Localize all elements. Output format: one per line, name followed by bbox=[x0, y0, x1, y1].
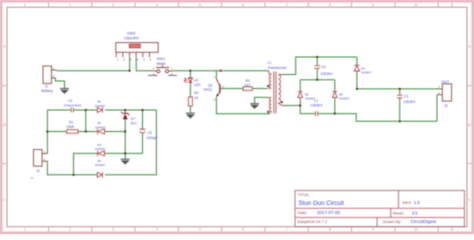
junction left rail / R1 row bbox=[46, 130, 48, 132]
svg-text:C2: C2 bbox=[321, 65, 325, 69]
wire secondary bottom node bbox=[284, 105, 300, 107]
svg-text:C1: C1 bbox=[314, 99, 318, 103]
wire SW1 to transformer primary top bbox=[173, 70, 269, 72]
svg-text:C: C bbox=[3, 198, 6, 202]
wire base to R3 bbox=[224, 88, 268, 90]
wire emitter to feedback winding bottom bbox=[216, 97, 270, 113]
svg-text:J2: J2 bbox=[444, 104, 448, 108]
svg-text:U2: U2 bbox=[194, 79, 198, 83]
wire C2 column bbox=[316, 57, 318, 80]
junction LED column / main rail bbox=[189, 70, 191, 72]
svg-text:in: in bbox=[31, 176, 34, 180]
svg-text:7: 7 bbox=[286, 3, 288, 7]
diode D5 (top multiplier) bbox=[354, 57, 372, 75]
wire battery negative to ground bbox=[56, 78, 65, 88]
connector J3 bbox=[31, 150, 47, 181]
wire C3 column bbox=[399, 89, 401, 121]
resistor R2 1K bbox=[188, 91, 199, 106]
svg-text:J3: J3 bbox=[36, 169, 40, 173]
svg-text:TITLE:: TITLE: bbox=[298, 192, 310, 197]
ground (transformer feedback) bbox=[250, 104, 259, 109]
svg-text:Sheet:: Sheet: bbox=[393, 210, 405, 215]
diode D8 (middle multiplier) bbox=[332, 92, 349, 101]
LED U2 bbox=[184, 78, 201, 87]
wire C1 row bbox=[300, 106, 437, 122]
svg-text:6: 6 bbox=[242, 228, 244, 232]
frame tick marks left and right bbox=[2, 86, 471, 164]
svg-text:4: 4 bbox=[156, 228, 158, 232]
capacitor C5 1000uF bbox=[140, 129, 158, 140]
svg-text:9: 9 bbox=[372, 3, 374, 7]
frame tick marks top bbox=[49, 2, 439, 7]
resistor R3 bbox=[243, 79, 252, 90]
svg-text:10: 10 bbox=[414, 3, 418, 7]
svg-text:1: 1 bbox=[24, 228, 26, 232]
svg-text:8: 8 bbox=[329, 3, 331, 7]
junction D3 branch / bottom row bbox=[72, 174, 74, 176]
svg-text:OUT: OUT bbox=[441, 80, 450, 84]
svg-text:REV:: REV: bbox=[403, 200, 412, 205]
svg-text:5: 5 bbox=[199, 228, 201, 232]
svg-text:11: 11 bbox=[450, 3, 454, 7]
junction C2 / multiplier middle rail bbox=[316, 79, 318, 81]
core bbox=[273, 72, 275, 114]
junction D5 / output rail bbox=[356, 88, 358, 90]
wire bridge left rail bbox=[46, 110, 48, 154]
svg-text:6MM: 6MM bbox=[157, 61, 166, 66]
svg-text:3: 3 bbox=[112, 228, 114, 232]
svg-text:R1: R1 bbox=[69, 120, 73, 124]
svg-text:1N4007: 1N4007 bbox=[95, 104, 106, 108]
svg-text:D7: D7 bbox=[131, 117, 135, 121]
svg-text:R3: R3 bbox=[245, 79, 249, 83]
svg-text:TIP31: TIP31 bbox=[203, 88, 212, 92]
svg-text:Stun Gun Circuit: Stun Gun Circuit bbox=[298, 200, 344, 207]
junction zener bottom / D2 row bbox=[124, 130, 126, 132]
connector J1 battery bbox=[41, 66, 57, 93]
junction C4 / D1 node bbox=[85, 109, 87, 111]
svg-text:L1: L1 bbox=[268, 61, 272, 65]
svg-text:2: 2 bbox=[69, 228, 71, 232]
capacitor C2 bbox=[314, 65, 333, 76]
primary winding (upper left) bbox=[268, 71, 271, 89]
junction ground node / D3 row bbox=[124, 152, 126, 154]
title block text bbox=[298, 192, 412, 224]
title block bbox=[295, 191, 464, 227]
svg-text:4: 4 bbox=[156, 3, 158, 7]
junction C3 bottom / return rail bbox=[399, 120, 401, 122]
junction dot at collector (red) bbox=[220, 70, 222, 72]
svg-text:105/3KV: 105/3KV bbox=[320, 72, 333, 76]
diode D3 bbox=[95, 143, 106, 156]
svg-text:1N4007: 1N4007 bbox=[95, 147, 106, 151]
svg-text:EasyEDA V4.7.2: EasyEDA V4.7.2 bbox=[298, 219, 328, 224]
transistor Q1 TIP31 bbox=[203, 75, 225, 101]
junction zener top / DC+ row bbox=[124, 109, 126, 111]
svg-text:1K: 1K bbox=[194, 96, 199, 100]
frame zone letters bbox=[3, 45, 471, 203]
diode D4 bbox=[95, 159, 106, 178]
phase dots bbox=[267, 85, 269, 87]
svg-text:105/3KV: 105/3KV bbox=[403, 100, 416, 104]
wire collector drop bbox=[215, 71, 217, 79]
svg-text:1000µF: 1000µF bbox=[146, 136, 157, 140]
ground (R2) bbox=[186, 113, 195, 118]
wire LED column bbox=[189, 71, 191, 113]
svg-text:C3: C3 bbox=[404, 94, 408, 98]
wire bottom row bbox=[46, 110, 156, 175]
resistor R1 150K bbox=[66, 120, 78, 133]
wire feedback winding top to ground bbox=[255, 97, 269, 103]
svg-text:150K: 150K bbox=[66, 125, 75, 129]
svg-text:Transformer: Transformer bbox=[268, 66, 288, 70]
capacitor C3 bbox=[397, 94, 417, 104]
wire D8 column bbox=[334, 80, 336, 114]
svg-text:4700pF/400V: 4700pF/400V bbox=[64, 103, 82, 107]
diode D1 bbox=[95, 100, 106, 113]
svg-text:1N4007: 1N4007 bbox=[95, 125, 106, 129]
junction C2 / multiplier top rail bbox=[316, 56, 318, 58]
svg-text:9: 9 bbox=[372, 228, 374, 232]
feedback winding (lower left) bbox=[268, 97, 271, 113]
wire D3 row bbox=[74, 153, 143, 174]
svg-text:1N4007: 1N4007 bbox=[95, 163, 106, 167]
svg-text:C: C bbox=[468, 198, 471, 202]
svg-text:11: 11 bbox=[450, 228, 454, 232]
svg-text:3: 3 bbox=[112, 3, 114, 7]
junction D8 anode / C1 row bbox=[334, 113, 336, 115]
connector J2 OUT bbox=[437, 80, 452, 108]
svg-text:C4: C4 bbox=[68, 99, 72, 103]
svg-text:2017-07-05: 2017-07-05 bbox=[317, 210, 341, 215]
svg-text:1/1: 1/1 bbox=[412, 210, 419, 215]
ground (battery) bbox=[60, 89, 69, 94]
svg-text:5V1: 5V1 bbox=[131, 121, 137, 125]
wire D5 column bbox=[356, 71, 358, 89]
wire battery to SW2 bbox=[57, 58, 130, 71]
svg-text:ON/OFF: ON/OFF bbox=[124, 35, 140, 40]
zener D7 5V1 bbox=[121, 112, 137, 126]
capacitor C4 bbox=[64, 99, 82, 113]
svg-text:7: 7 bbox=[286, 228, 288, 232]
wire C5 column bbox=[142, 110, 144, 153]
svg-text:Drawn By:: Drawn By: bbox=[383, 219, 401, 224]
svg-text:6: 6 bbox=[242, 3, 244, 7]
svg-text:CircuitDigest: CircuitDigest bbox=[411, 219, 437, 224]
svg-text:Q1: Q1 bbox=[208, 84, 213, 88]
wire output rail bbox=[357, 88, 439, 90]
svg-text:1N4007: 1N4007 bbox=[361, 71, 372, 75]
wire R1 D2 row bbox=[47, 131, 125, 133]
transformer L1 bbox=[267, 61, 288, 114]
wire J2 pin2 drop bbox=[436, 95, 438, 122]
junction battery wire / SW2 pin bbox=[129, 70, 131, 72]
svg-text:1: 1 bbox=[24, 3, 26, 7]
junction C5 top / DC+ row bbox=[141, 109, 143, 111]
svg-text:1K2: 1K2 bbox=[244, 83, 250, 87]
capacitor C1 bbox=[310, 99, 323, 116]
junction secondary bottom node bbox=[299, 104, 301, 106]
svg-text:5: 5 bbox=[199, 3, 201, 7]
svg-text:R2: R2 bbox=[194, 91, 198, 95]
wire zener column bbox=[124, 110, 126, 153]
svg-text:C5: C5 bbox=[147, 131, 151, 135]
svg-text:1N4007: 1N4007 bbox=[339, 97, 350, 101]
wire D6 column bbox=[299, 80, 301, 106]
wire bridge top row bbox=[47, 109, 156, 111]
svg-text:2: 2 bbox=[69, 3, 71, 7]
svg-text:8: 8 bbox=[329, 228, 331, 232]
wire secondary top to multiplier top rail bbox=[282, 57, 357, 75]
svg-text:Battery: Battery bbox=[41, 89, 53, 93]
diode D2 bbox=[95, 121, 106, 134]
svg-text:105/3KV: 105/3KV bbox=[310, 103, 323, 107]
switch SW2 ON/OFF bbox=[116, 30, 158, 61]
wire bridge ground stem bbox=[124, 153, 126, 158]
frame tick marks bottom bbox=[49, 227, 439, 232]
wire SW2 to SW1 bbox=[136, 58, 153, 71]
junction C3 top / output rail bbox=[399, 88, 401, 90]
wire multiplier middle rail bbox=[300, 79, 335, 81]
diode D6 (left multiplier) bbox=[298, 92, 316, 101]
svg-text:1.0: 1.0 bbox=[414, 200, 421, 205]
svg-text:LED: LED bbox=[194, 83, 201, 87]
secondary winding (right) bbox=[278, 75, 284, 106]
svg-text:Date:: Date: bbox=[298, 210, 308, 215]
switch SW1 pushbutton bbox=[148, 56, 177, 76]
wire C4 to R1 junction column bbox=[85, 110, 87, 132]
ground (bridge) bbox=[121, 159, 130, 164]
junction R1 / D2 node bbox=[85, 130, 87, 132]
svg-text:10: 10 bbox=[414, 228, 418, 232]
